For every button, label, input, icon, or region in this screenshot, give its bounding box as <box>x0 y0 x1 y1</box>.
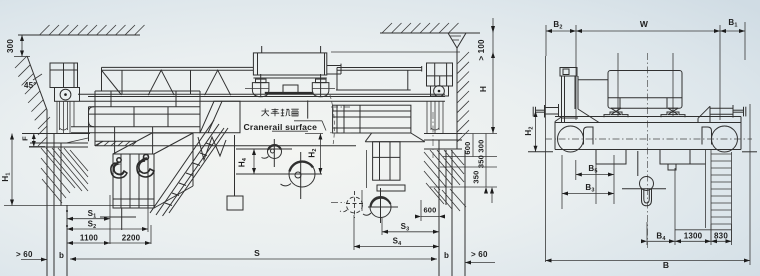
hoist box <box>578 71 682 109</box>
extension verticals bottom left <box>110 195 151 244</box>
right wall bottom verticals <box>438 140 440 276</box>
left bracket <box>560 68 599 124</box>
right dim ref lines <box>430 134 497 188</box>
ladder <box>706 150 732 241</box>
hoist foot right <box>661 108 685 117</box>
dim H2 <box>524 111 538 152</box>
small hook symbol <box>262 139 282 167</box>
svg-text:830: 830 <box>714 232 728 241</box>
walkway hatch under girder left <box>97 141 136 145</box>
svg-text:2200: 2200 <box>122 234 141 243</box>
svg-text:350: 350 <box>472 170 481 183</box>
dim 1100 <box>67 234 110 246</box>
runway beam left <box>22 134 90 148</box>
svg-text:1300: 1300 <box>684 232 703 241</box>
wheel left gearbox <box>584 127 594 145</box>
hook ref line lower <box>236 173 322 175</box>
buffer right <box>710 105 746 118</box>
svg-text:300: 300 <box>6 39 15 53</box>
hook profile left <box>111 158 127 178</box>
dim S3 <box>382 218 439 235</box>
svg-text:W: W <box>640 19 649 29</box>
right wall hatch <box>457 52 469 142</box>
svg-text:B: B <box>663 260 669 270</box>
svg-text:S: S <box>254 248 260 258</box>
extension verticals top <box>546 22 745 120</box>
phantom CL mark lower <box>331 202 345 204</box>
svg-text:600: 600 <box>423 206 436 215</box>
break zigzag <box>198 137 226 160</box>
hanging block left <box>596 150 626 165</box>
truss web members <box>102 70 231 95</box>
right lower hook dashed <box>340 191 363 218</box>
girder platform left box <box>71 91 200 154</box>
buffer left <box>533 104 558 118</box>
wheel axle centerline <box>545 138 752 140</box>
limit weight box <box>227 196 243 210</box>
rail line right <box>742 151 757 153</box>
cab box <box>100 133 193 230</box>
trolley rail edge band <box>265 92 314 94</box>
svg-text:H: H <box>478 86 488 92</box>
svg-text:> 100: > 100 <box>477 39 486 61</box>
dim 2200 <box>110 234 151 246</box>
trolley wheel right <box>312 74 335 97</box>
right end truck column <box>427 63 453 96</box>
svg-text:b: b <box>59 251 64 260</box>
runway rail CL right <box>432 112 434 158</box>
handrail right section <box>337 66 422 90</box>
bridge deck <box>555 117 741 150</box>
svg-text:> 60: > 60 <box>471 250 488 259</box>
truss top chord left (double) <box>102 67 254 91</box>
hook sheave front <box>622 151 666 206</box>
roof beam notch <box>448 33 466 48</box>
left wall slope <box>27 56 47 117</box>
dim 300 left <box>6 35 30 57</box>
trolley wheel left <box>245 74 269 97</box>
right wall <box>456 48 458 149</box>
>100 extension line from trolley top <box>331 51 460 53</box>
dim 600 vertical <box>463 134 473 157</box>
hanging block right <box>660 150 690 165</box>
aux hoist hanging box <box>365 133 425 191</box>
svg-text:600: 600 <box>463 141 472 154</box>
right wheel lower guides <box>427 102 443 134</box>
svg-text:1100: 1100 <box>80 234 99 243</box>
dim H1 <box>1 134 155 206</box>
girder right box <box>308 90 411 133</box>
top dim line W B1 B2 <box>546 18 745 33</box>
left wheel lower guides <box>57 102 74 134</box>
wall inner vertical <box>60 143 62 206</box>
dim S2 <box>66 220 148 232</box>
girder bottom flange <box>95 141 356 145</box>
wall inner vertical right <box>445 150 447 205</box>
轨 <box>281 109 291 116</box>
svg-text:> 60: > 60 <box>16 250 33 259</box>
dims B4 1300 830 <box>641 168 732 245</box>
phantom dashed curve <box>330 95 334 145</box>
dim S <box>70 248 437 261</box>
ceiling hatch right <box>382 23 459 33</box>
left wall verticals <box>46 110 48 276</box>
B left extension vertical <box>545 56 547 262</box>
ceiling line right <box>380 32 480 34</box>
wheel right <box>712 126 738 152</box>
phantom CL marks <box>331 106 350 108</box>
corbel hatch right <box>424 150 466 211</box>
left girder end vertical <box>66 205 68 276</box>
label cn cranerail (vector glyphs) <box>262 109 299 117</box>
left wheel circle <box>60 89 71 100</box>
hoist centerlines <box>617 53 619 116</box>
>60 left line and label <box>21 259 47 261</box>
right wheel circle <box>434 86 445 97</box>
wheel left <box>558 126 584 152</box>
svg-text:45°: 45° <box>24 81 37 90</box>
left end truck column <box>50 63 80 101</box>
dim H4 <box>238 149 257 174</box>
ceiling hatch left <box>40 25 145 35</box>
wheel right gearbox <box>702 127 712 145</box>
right lower hook solid <box>363 188 398 223</box>
svg-text:350: 350 <box>477 155 486 168</box>
dim H2 left view <box>308 134 323 175</box>
ladder top tie <box>690 163 706 165</box>
rail line left <box>528 151 553 153</box>
ceiling line left <box>18 34 140 36</box>
hook profile right <box>137 155 154 178</box>
rope lines aux hoist <box>361 190 363 211</box>
dim B3 <box>562 155 614 209</box>
车 <box>271 109 279 117</box>
dim F <box>21 134 46 147</box>
svg-text:F: F <box>21 136 30 141</box>
svg-text:Cranerail surface: Cranerail surface <box>244 122 318 132</box>
wall diag near girder <box>66 138 88 143</box>
inclined stair <box>150 120 228 216</box>
corbel hatch left <box>41 148 88 203</box>
svg-text:300: 300 <box>477 139 486 152</box>
dim >100 and H chain <box>477 18 495 134</box>
extension vertical 614 <box>613 155 615 204</box>
trolley body <box>253 46 341 78</box>
big hook symbol <box>281 152 316 199</box>
runway beam right <box>424 134 462 150</box>
dim B5 <box>576 160 614 180</box>
cranerail surface ref line <box>305 133 323 135</box>
trolley crossbeam <box>283 85 298 93</box>
svg-text:b: b <box>444 251 449 260</box>
girder rail lines <box>78 94 445 101</box>
dim B <box>546 104 751 270</box>
hoist foot left <box>604 108 628 117</box>
dim 300/350/350 chain <box>472 134 495 204</box>
dim S4 <box>354 215 439 250</box>
>60 right line <box>465 262 495 264</box>
left wall slope hatch <box>15 56 50 146</box>
pedestal under trolley <box>200 101 240 133</box>
limit weight line <box>234 135 236 196</box>
main centerline vertical <box>647 53 649 248</box>
dim S1 <box>66 209 110 221</box>
dim 600 horizontal <box>415 200 445 221</box>
hook ref line upper <box>236 148 292 150</box>
right gusset <box>698 106 710 122</box>
面 <box>291 109 298 116</box>
大 <box>262 109 270 117</box>
